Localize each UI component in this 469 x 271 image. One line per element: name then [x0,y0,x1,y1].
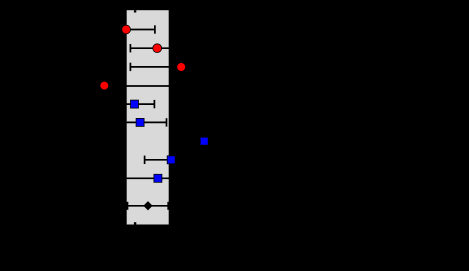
study 8 marker (blue square) [167,156,175,164]
study 8 left cap [144,156,146,164]
study 1 whisker [125,29,155,31]
study 3 marker (red circle) [177,63,186,72]
summary left cap [126,202,128,210]
bottom axis tick [134,222,136,224]
study 6 right cap [166,118,168,126]
study 5 marker (blue square) [131,100,139,108]
study 5 right cap [153,100,155,108]
summary right cap [167,202,169,210]
study 2 marker (red circle) [153,44,162,53]
study 1 marker (red circle) [122,25,131,34]
study 4 whisker [104,85,172,87]
study 1 right cap [154,25,156,33]
summary marker (black diamond) [143,201,152,210]
study 6 marker (blue square) [136,118,144,126]
study 7 marker (blue square) [200,137,208,145]
study 5 whisker [124,103,154,105]
study 2 left cap [129,44,131,52]
study 9 marker (blue square) [154,174,162,182]
study 2 whisker [130,47,170,49]
study 3 left cap [129,63,131,71]
study 3 whisker [130,66,172,68]
shaded CI band [127,10,169,224]
top axis tick [134,10,136,12]
study 8 whisker [145,159,172,161]
study 4 marker (red circle) [100,81,109,90]
summary interval line [127,205,169,207]
study 9 whisker [124,177,172,179]
study 6 whisker [124,121,167,123]
